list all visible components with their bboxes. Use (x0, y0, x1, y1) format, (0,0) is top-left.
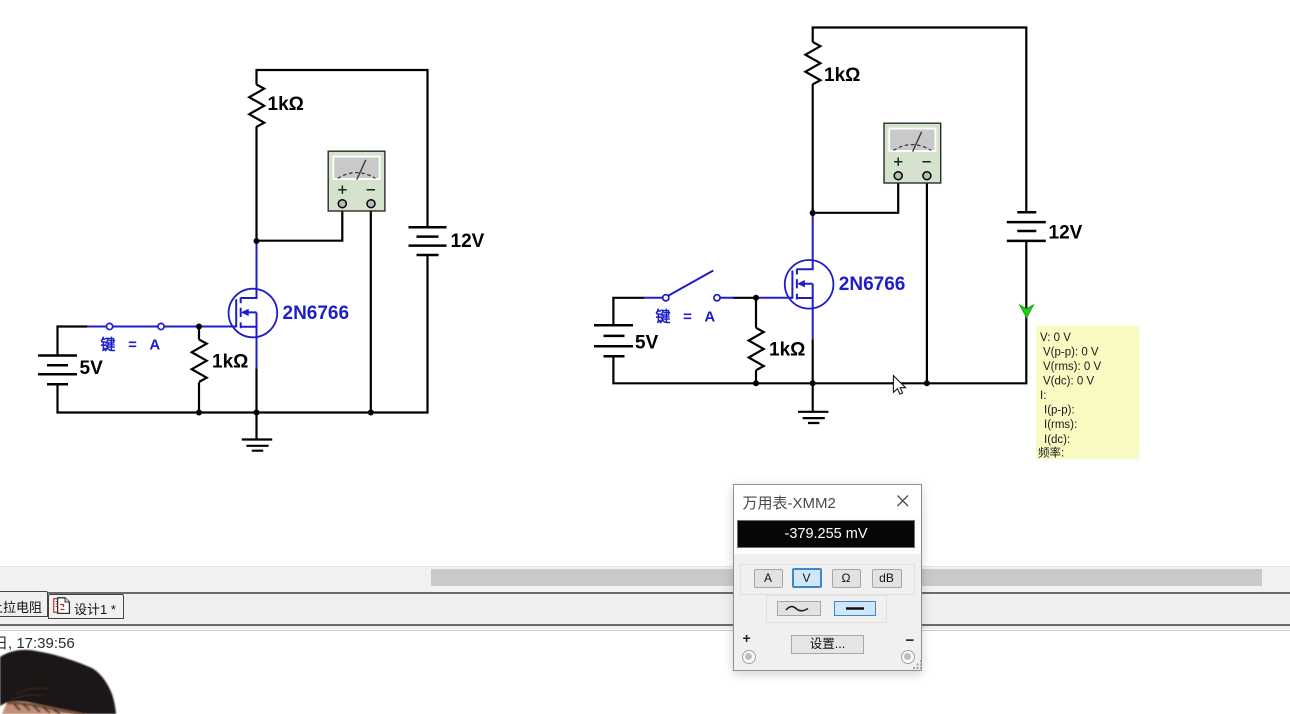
svg-text:2N6766: 2N6766 (283, 303, 350, 324)
svg-text:1kΩ: 1kΩ (212, 352, 248, 373)
svg-text:1kΩ: 1kΩ (769, 340, 805, 361)
svg-text:I(rms):: I(rms): (1044, 419, 1077, 431)
svg-text:I(dc):: I(dc): (1044, 434, 1070, 446)
svg-text:2N6766: 2N6766 (839, 274, 906, 295)
svg-text:12V: 12V (1049, 223, 1083, 244)
svg-text:I(p-p):: I(p-p): (1044, 405, 1075, 417)
svg-text:频率:: 频率: (1038, 445, 1064, 459)
svg-text:V(p-p): 0 V: V(p-p): 0 V (1043, 347, 1099, 359)
svg-text:键 = A: 键 = A (655, 308, 720, 326)
svg-text:5V: 5V (80, 358, 104, 379)
svg-text:键 = A: 键 = A (100, 336, 165, 354)
svg-text:V(rms): 0 V: V(rms): 0 V (1043, 361, 1101, 373)
svg-text:1kΩ: 1kΩ (268, 94, 304, 115)
svg-text:V(dc): 0 V: V(dc): 0 V (1043, 376, 1094, 388)
svg-text:1kΩ: 1kΩ (824, 65, 860, 86)
svg-text:I:: I: (1040, 390, 1046, 402)
svg-text:V: 0 V: V: 0 V (1040, 332, 1071, 344)
svg-text:5V: 5V (635, 333, 659, 354)
svg-text:12V: 12V (451, 231, 485, 252)
